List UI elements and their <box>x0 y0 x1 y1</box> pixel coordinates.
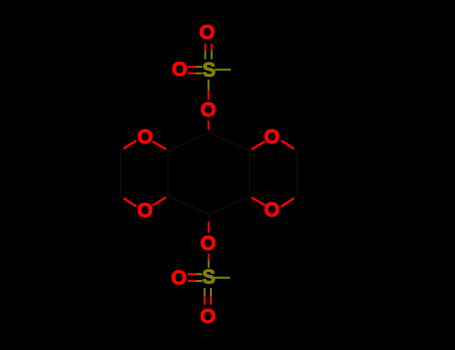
wire C4-O3' bond <box>208 215 210 233</box>
svg-text:O: O <box>264 127 280 149</box>
wire O-LT to ring bond <box>153 142 168 151</box>
wire O3-C1 bond <box>208 121 210 133</box>
wire O-RT to ring bond <box>250 142 265 151</box>
svg-text:O: O <box>200 306 216 328</box>
wire O2=S double bond (left sulfonyl oxygen) <box>188 67 202 74</box>
wire S-O3 ester bond <box>208 80 210 100</box>
svg-text:O: O <box>172 59 188 81</box>
wire S'=O1' double bond (bottom sulfonyl oxygen) <box>205 288 211 305</box>
wire CH2c-CH2d bond <box>296 151 298 196</box>
wire O2'=S' double bond (left sulfonyl oxygen, bottom) <box>188 274 202 281</box>
svg-text:O: O <box>199 22 215 44</box>
svg-text:O: O <box>200 233 216 255</box>
wire O-LB to CH2b bond <box>121 196 137 206</box>
svg-text:O: O <box>137 200 153 222</box>
wire S=O1 double bond (top sulfonyl oxygen) <box>205 44 211 60</box>
benzene ring <box>168 133 250 215</box>
wire S'-CH3 methyl bond <box>214 277 230 279</box>
wire O-RB to ring bond <box>250 196 265 205</box>
wire O-LT to CH2a bond <box>121 140 137 151</box>
wire O-LB to ring bond <box>153 196 168 205</box>
wire CH2a-CH2b bond <box>120 151 122 196</box>
svg-text:O: O <box>137 127 153 149</box>
wire S-CH3 methyl bond <box>215 69 231 71</box>
wire O-RB to CH2d bond <box>281 196 297 206</box>
wire O3'-S' bond <box>208 254 210 268</box>
svg-text:O: O <box>201 100 217 122</box>
svg-text:S: S <box>202 267 215 289</box>
svg-text:O: O <box>264 200 280 222</box>
svg-text:S: S <box>202 60 215 82</box>
wire O-RT to CH2c bond <box>281 140 297 151</box>
svg-text:O: O <box>171 267 187 289</box>
